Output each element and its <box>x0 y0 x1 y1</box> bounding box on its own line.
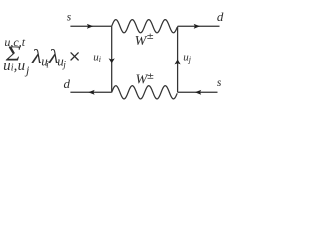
label pm (top boson) <box>147 34 153 39</box>
wire: internal u_j quark line (right vertical) <box>177 26 179 92</box>
arrow on s quark line top-left (pointing right) <box>87 24 93 29</box>
svg-text:W: W <box>135 34 148 49</box>
arrow on u_j internal line (pointing up) <box>175 60 181 65</box>
svg-text:u: u <box>3 58 11 74</box>
svg-text:s: s <box>217 77 222 89</box>
label pm (bottom boson) <box>148 73 154 78</box>
svg-text:d: d <box>64 76 71 91</box>
svg-text:W: W <box>136 73 149 88</box>
svg-text:u: u <box>18 58 26 74</box>
arrow on d quark line top-right (pointing right) <box>194 24 200 29</box>
arrow on s quark line bottom-right (pointing left) <box>195 90 201 95</box>
times sign <box>71 53 78 60</box>
arrow on d quark line bottom-left (pointing left) <box>88 90 94 95</box>
wire: external s quark line top-left <box>70 25 111 27</box>
wire: external d quark line top-right <box>178 25 220 27</box>
wire: external s quark line bottom-right <box>178 91 218 93</box>
svg-text:d: d <box>217 9 224 24</box>
arrow on u_i internal line (pointing down) <box>109 58 115 63</box>
W boson wavy propagator top <box>112 20 178 33</box>
wire: internal u_i quark line (left vertical) <box>111 26 113 92</box>
W boson wavy propagator bottom <box>112 86 178 99</box>
wire: external d quark line bottom-left <box>70 91 111 93</box>
svg-text:uj: uj <box>183 51 192 64</box>
svg-text:uj: uj <box>57 54 66 71</box>
svg-text:s: s <box>67 11 72 23</box>
svg-text:ui: ui <box>93 51 101 64</box>
